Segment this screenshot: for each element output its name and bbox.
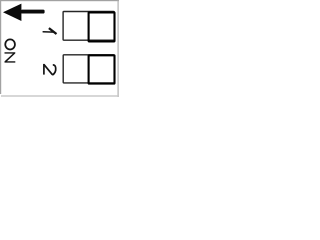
ON label letter O: [5, 39, 15, 49]
switch 2 label (rotated digit 2): [44, 64, 56, 75]
ON direction arrow: [3, 4, 45, 21]
frame right edge: [118, 1, 119, 98]
frame top edge: [0, 0, 119, 1]
frame bottom edge: [1, 95, 119, 96]
switch 1 label (rotated digit 1): [43, 27, 58, 35]
switch S1 body: [63, 12, 114, 41]
switch S2 body: [63, 55, 114, 83]
switch S1 slider (OFF position, right cell, bold): [89, 12, 115, 41]
switch S2 slider (OFF position, right cell, bold): [89, 55, 115, 83]
ON label letter N (rotated): [5, 52, 16, 62]
frame left edge: [0, 0, 1, 94]
